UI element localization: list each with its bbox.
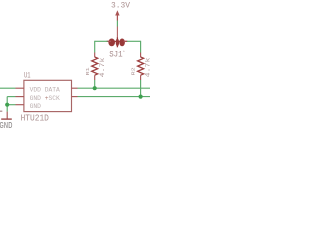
pin SCK stub right (red): [72, 96, 78, 98]
pin R1 bottom red: [94, 75, 96, 80]
resistor R1 zigzag: [92, 57, 98, 75]
wire GND row2 left (green): [7, 96, 15, 98]
pin R2 bottom red: [140, 75, 142, 80]
junction dot DATA/R1: [93, 86, 97, 90]
wire GND vertical (green): [6, 97, 8, 112]
wire supply to jumper (green): [116, 21, 118, 27]
svg-text:HTU21D: HTU21D: [21, 114, 49, 124]
wire DATA bus (green): [78, 87, 151, 89]
solder jumper SJ1: [107, 37, 128, 47]
svg-text:VDD DATA: VDD DATA: [30, 87, 60, 94]
edge fragment (cut-off symbol at left edge): [0, 110, 2, 112]
svg-text:4.7k: 4.7k: [100, 58, 107, 78]
svg-text:GND: GND: [0, 120, 13, 131]
svg-text:SJ1: SJ1: [109, 51, 123, 60]
wire GND row3 left (green): [7, 104, 15, 106]
ground bar: [1, 118, 12, 120]
svg-text:+: +: [123, 50, 126, 54]
pin supply (red): [116, 16, 118, 21]
IC U1 box: [24, 80, 72, 111]
pin jumper top (red): [116, 27, 118, 39]
wire jumper left to R1 top: [95, 40, 108, 42]
svg-text:GND: GND: [30, 103, 42, 110]
wire VDD net left (green): [0, 87, 16, 89]
pin GND row3 stub (red): [16, 104, 24, 106]
wire R2 bottom green: [140, 80, 142, 97]
junction dot GND: [5, 103, 9, 107]
pin ground symbol (red): [6, 112, 8, 119]
pin VDD stub (red): [16, 87, 24, 89]
svg-text:R1: R1: [84, 67, 90, 76]
supply symbol 3.3V arrow: [115, 10, 119, 15]
wire R1 bottom green: [94, 80, 96, 88]
wire SCK bus (green): [78, 96, 151, 98]
pin GND row2 stub (red): [16, 96, 24, 98]
pin jumper left stub: [108, 40, 112, 42]
svg-text:GND +SCK: GND +SCK: [30, 95, 60, 102]
pin DATA stub right (red): [72, 87, 78, 89]
svg-text:4.7k: 4.7k: [145, 58, 150, 78]
pin R2 top red: [140, 53, 142, 58]
svg-text:3.3V: 3.3V: [111, 1, 130, 11]
pin jumper right stub: [124, 40, 128, 42]
svg-text:R2: R2: [130, 67, 136, 75]
svg-text:U1: U1: [24, 71, 31, 80]
wire R1 top vertical green: [94, 41, 96, 53]
resistor R2 zigzag: [138, 57, 144, 75]
pin R1 top red: [94, 53, 96, 58]
wire jumper right to R2 top: [127, 40, 141, 42]
wire R2 top vertical green: [140, 41, 142, 53]
junction dot SCK/R2: [139, 95, 143, 99]
